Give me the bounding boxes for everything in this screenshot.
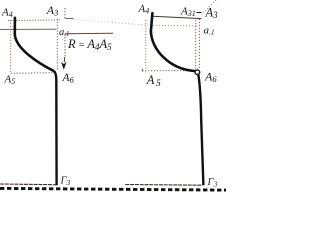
svg-text:A6: A6 bbox=[62, 72, 75, 85]
faint dotted continuation toward right figure bbox=[74, 20, 112, 23]
bold dashed bottom border bbox=[0, 188, 226, 190]
top solid line bbox=[153, 16, 202, 18]
svg-text:A4: A4 bbox=[1, 7, 13, 20]
dotted rect top edge bbox=[8, 19, 60, 22]
svg-text:Г3: Г3 bbox=[207, 177, 218, 189]
bottom edge left tick bbox=[141, 69, 143, 72]
dotted a1 line inside right figure bbox=[150, 24, 197, 27]
dotted rect left edge bbox=[10, 20, 12, 73]
svg-text:A5: A5 bbox=[4, 74, 16, 87]
dash between A31 and A3 bbox=[197, 12, 202, 14]
bottom dashed edge bbox=[142, 70, 192, 72]
dotted rect bottom edge bbox=[11, 72, 53, 74]
baseline right figure bbox=[125, 184, 202, 187]
long dotted a1 line across gap and right figure bbox=[112, 23, 150, 26]
svg-text:A4: A4 bbox=[138, 3, 150, 16]
dotted rect right edge bbox=[56, 19, 58, 70]
construction line a1 horizontal bbox=[0, 28, 57, 30]
svg-text:A3: A3 bbox=[205, 6, 219, 21]
node circle A6 bbox=[195, 70, 200, 75]
svg-text:R = A4A5: R = A4A5 bbox=[67, 37, 112, 52]
svg-text:A31: A31 bbox=[180, 5, 196, 17]
leader dashes from A3 down bbox=[64, 8, 66, 20]
right dashed vertical 1 bbox=[195, 20, 197, 71]
right dashed vertical 2 bbox=[198, 19, 200, 70]
thick contour arc right bbox=[151, 13, 195, 71]
baseline left figure bbox=[0, 183, 57, 186]
svg-text:a.1: a.1 bbox=[204, 24, 215, 36]
R box left dashed edge bbox=[64, 34, 66, 57]
R box top line bbox=[65, 32, 113, 35]
dotted slant near A3 bbox=[202, 0, 216, 14]
slanted vertical to G3 bbox=[198, 75, 203, 185]
svg-text:A6: A6 bbox=[204, 69, 217, 84]
svg-text:Г3: Г3 bbox=[60, 176, 71, 188]
svg-text:A5: A5 bbox=[146, 73, 162, 89]
arrow to A6 bbox=[63, 57, 66, 63]
short solid tick right of corner bbox=[66, 17, 74, 19]
thick vertical line A6 to G3 bbox=[54, 71, 57, 185]
svg-text:A3: A3 bbox=[46, 3, 59, 17]
thick contour arc A4 to A6 bbox=[15, 18, 54, 71]
left dashed vertical bbox=[145, 20, 147, 72]
